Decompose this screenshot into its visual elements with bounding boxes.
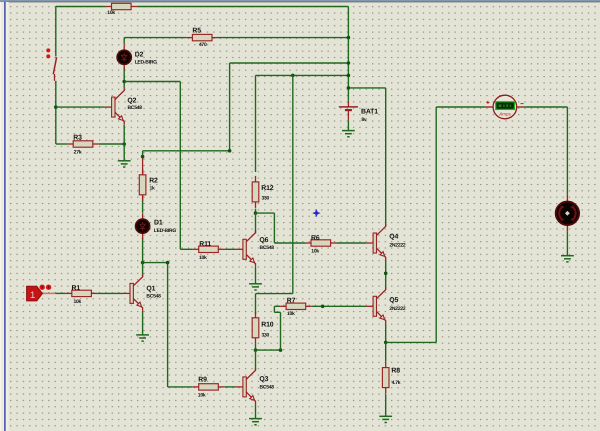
transistor Q6 BC548 bbox=[236, 230, 274, 266]
wire D2 bottom to Q2 collector bbox=[123, 67, 125, 88]
svg-text:BC548: BC548 bbox=[146, 293, 161, 299]
junction battery rail / y75 rail bbox=[347, 74, 351, 78]
resistor R7 10k bbox=[280, 297, 312, 317]
wire R10 top stub bbox=[255, 294, 257, 314]
svg-text:Q4: Q4 bbox=[389, 234, 398, 241]
wire R9 left bbox=[168, 386, 193, 388]
resistor R12 330 bbox=[252, 176, 274, 208]
wire R2 feed horizontal bbox=[143, 150, 230, 152]
svg-text:R7: R7 bbox=[287, 297, 296, 304]
wire R11 left bbox=[180, 248, 192, 250]
wire D1 node horizontal bbox=[143, 262, 168, 264]
wire battery node to Q4 collector bbox=[348, 87, 385, 89]
wire ammeter column vertical bbox=[435, 107, 437, 342]
wire battery negative to ground bbox=[347, 120, 349, 130]
svg-text:R5: R5 bbox=[192, 28, 201, 35]
svg-text:10k: 10k bbox=[199, 255, 207, 261]
wire Q2 emitter to ground bbox=[123, 125, 125, 161]
sheet inner margin strip bbox=[6, 2, 9, 431]
wire Q1 emitter to ground bbox=[142, 311, 144, 335]
svg-text:R12: R12 bbox=[261, 185, 274, 192]
svg-text:330: 330 bbox=[262, 196, 270, 202]
svg-text:R2: R2 bbox=[149, 177, 158, 184]
wire R6 left bbox=[274, 242, 305, 244]
svg-text:470: 470 bbox=[199, 42, 207, 48]
junction Q4 emitter / output branch bbox=[384, 272, 388, 276]
transistor Q1 BC548 bbox=[123, 274, 161, 311]
svg-text:27k: 27k bbox=[74, 149, 82, 155]
wire node to R6 jog horizontal bbox=[256, 212, 275, 214]
svg-text:BC548: BC548 bbox=[260, 245, 275, 251]
svg-text:Amps: Amps bbox=[498, 111, 511, 116]
svg-text:R1: R1 bbox=[72, 285, 81, 292]
svg-text:Q5: Q5 bbox=[389, 297, 398, 304]
ammeter AM1 (Amps) bbox=[486, 95, 524, 119]
wire R7 jog horizontal bbox=[274, 311, 280, 313]
svg-text:10k: 10k bbox=[74, 299, 82, 305]
svg-text:10k: 10k bbox=[107, 10, 115, 16]
wire top rail right segment bbox=[137, 6, 348, 8]
input terminal pin (pink) bbox=[42, 292, 55, 294]
wire output node to ammeter column bbox=[386, 341, 437, 343]
transistor Q3 BC548 bbox=[236, 368, 274, 405]
svg-text:LED-BIRG: LED-BIRG bbox=[135, 59, 158, 65]
origin marker (blue) bbox=[312, 209, 320, 217]
resistor R11 10k bbox=[193, 241, 225, 261]
wire Q2 base bbox=[56, 106, 105, 108]
wire R3 right to Q2 emitter node bbox=[99, 143, 124, 145]
wire R2 bottom pin (red) bbox=[142, 194, 144, 199]
wire R12 bottom to node bbox=[255, 209, 257, 214]
wire mid rail y63 bbox=[230, 62, 349, 64]
window left margin bbox=[0, 2, 1, 431]
wire ammeter right bbox=[524, 106, 567, 108]
junction Q5 emitter / R8 / ammeter branch bbox=[384, 341, 388, 345]
junction R12 / Q6 collector / R6 branch bbox=[254, 211, 258, 215]
wire R7 right to Q5 base bbox=[312, 305, 366, 307]
wire Q1 collector vertical bbox=[142, 238, 144, 277]
junction y75 / R10 branch bbox=[291, 74, 295, 78]
junction on Q5 base wire bbox=[321, 305, 325, 309]
svg-text:4.7k: 4.7k bbox=[392, 380, 401, 386]
wire R5 rail left bbox=[124, 37, 186, 39]
resistor R9 10k bbox=[193, 376, 225, 398]
svg-text:10k: 10k bbox=[311, 249, 319, 255]
svg-text:2N2222: 2N2222 bbox=[389, 243, 405, 249]
svg-text:R10: R10 bbox=[261, 321, 274, 328]
resistor R4 10k (top rail) bbox=[106, 3, 138, 16]
svg-text:R11: R11 bbox=[199, 241, 211, 248]
junction battery rail / y63 rail bbox=[347, 61, 351, 65]
wire R11 right to Q6 base bbox=[224, 248, 236, 250]
wire R7 left bbox=[274, 305, 280, 307]
junction R10 / Q3 collector / R7 bbox=[254, 348, 258, 352]
switch SW1 actuator dots bbox=[46, 48, 50, 58]
resistor R5 470 bbox=[186, 28, 218, 48]
ground under Q3 bbox=[249, 419, 262, 425]
wire left rail upper (to switch) bbox=[55, 7, 57, 57]
wire Q3 collector vertical bbox=[255, 350, 257, 370]
resistor R2 1k bbox=[139, 169, 158, 201]
junction D2 / Q2 collector / branch bbox=[122, 80, 126, 84]
svg-text:1: 1 bbox=[30, 290, 35, 301]
input logic-state dots bbox=[40, 285, 52, 290]
window top border bbox=[0, 0, 600, 2]
LED D2 bbox=[117, 44, 157, 70]
junction battery rail / R5 rail bbox=[347, 36, 351, 40]
resistor R8 4.7k bbox=[382, 362, 400, 394]
ground under Q1 bbox=[136, 335, 149, 341]
wire R8 bottom to ground bbox=[385, 394, 387, 416]
svg-text:R6: R6 bbox=[311, 235, 320, 242]
svg-text:Q1: Q1 bbox=[146, 285, 155, 292]
junction D1 / Q1 collector bbox=[141, 261, 145, 265]
wire R2 top stub bbox=[142, 151, 144, 157]
wire motor column lower bbox=[566, 231, 568, 255]
wire R7 node horizontal bbox=[256, 349, 281, 351]
window left blue border bbox=[4, 2, 6, 431]
svg-text:R3: R3 bbox=[73, 134, 82, 141]
junction R9 branch bbox=[166, 261, 170, 265]
svg-text:Q3: Q3 bbox=[259, 376, 268, 383]
ground under R8 bbox=[379, 416, 392, 422]
wire Q3 emitter to ground bbox=[255, 404, 257, 418]
LED D1 bbox=[136, 213, 177, 239]
wire R10 top jog horizontal bbox=[256, 293, 293, 295]
wire left rail lower (switch to R3) bbox=[55, 81, 57, 144]
junction battery positive node bbox=[347, 86, 351, 90]
svg-text:BC548: BC548 bbox=[128, 105, 143, 111]
wire node D2-Q2 to R11 column bbox=[124, 81, 180, 83]
transistor Q4 2N2222 bbox=[366, 224, 406, 261]
svg-text:R8: R8 bbox=[391, 368, 400, 375]
junction R2 top bbox=[141, 155, 145, 159]
svg-text:LED-BIRG: LED-BIRG bbox=[154, 228, 177, 234]
wire top rail left segment bbox=[56, 6, 106, 8]
wire Q5 emitter down bbox=[385, 324, 387, 343]
svg-text:10k: 10k bbox=[198, 393, 206, 399]
junction x229 corner bbox=[228, 149, 232, 153]
wire R3 left bbox=[56, 143, 67, 145]
wire mid rail y75 bbox=[256, 74, 349, 76]
wire R7 jog vertical bbox=[280, 312, 282, 350]
svg-text:Q2: Q2 bbox=[127, 98, 136, 105]
wire R10 top vertical bbox=[292, 75, 294, 293]
resistor R1 10k bbox=[66, 285, 98, 305]
svg-text:330: 330 bbox=[262, 332, 270, 338]
svg-text:BAT1: BAT1 bbox=[361, 108, 378, 115]
resistor R10 330 bbox=[252, 312, 274, 344]
wire terminal to R1 bbox=[56, 292, 66, 294]
wire R2 top pin (red) bbox=[142, 157, 144, 176]
wire R8 top bbox=[385, 342, 387, 361]
wire D2 top to R5 rail bbox=[123, 38, 125, 44]
svg-text:BC548: BC548 bbox=[260, 385, 275, 391]
junction Q2 emitter / R3 / ground bbox=[122, 142, 126, 146]
resistor R6 10k bbox=[305, 235, 337, 255]
transistor Q2 BC548 bbox=[105, 88, 143, 125]
wire Q6 collector vertical bbox=[255, 213, 257, 233]
resistor R3 27k bbox=[67, 134, 99, 155]
wire Q4 emitter to Q5 collector bbox=[385, 261, 387, 290]
svg-text:2N2222: 2N2222 bbox=[389, 306, 405, 312]
battery BAT1 8v bbox=[339, 101, 378, 123]
wire motor column upper bbox=[566, 107, 568, 194]
wire Q3 base bbox=[224, 386, 236, 388]
transistor Q5 2N2222 bbox=[366, 287, 406, 324]
ground under Q2 bbox=[118, 161, 131, 167]
wire R6 right to Q4 base bbox=[337, 242, 367, 244]
wire x229 vertical bbox=[229, 63, 231, 151]
wire R6 jog vertical bbox=[273, 213, 275, 243]
svg-text:Q6: Q6 bbox=[259, 237, 268, 244]
wire R1 right to Q1 base bbox=[97, 292, 123, 294]
wire R10 bottom stub bbox=[255, 344, 257, 351]
svg-text:8v: 8v bbox=[361, 117, 367, 123]
svg-text:10k: 10k bbox=[287, 311, 295, 317]
wire R7 jog up bbox=[273, 306, 275, 312]
wire battery rail vertical bbox=[347, 7, 349, 101]
junction R7 jog corner bbox=[279, 348, 283, 352]
wire Q6 emitter to ground bbox=[255, 267, 257, 284]
svg-text:D2: D2 bbox=[135, 52, 144, 59]
ground under Q6 bbox=[249, 284, 262, 290]
wire Q1 node to R9 vertical bbox=[167, 263, 169, 387]
wire R2 bottom to D1 top bbox=[142, 200, 144, 213]
svg-text:D1: D1 bbox=[154, 219, 163, 226]
ground under motor bbox=[561, 256, 574, 262]
svg-text:1k: 1k bbox=[150, 186, 156, 192]
junction left rail / Q2 base bbox=[54, 105, 58, 109]
wire R5 rail right bbox=[218, 37, 348, 39]
wire Q4 collector vertical bbox=[385, 88, 387, 227]
motor M1 bbox=[556, 194, 579, 231]
svg-text:R9: R9 bbox=[198, 376, 207, 383]
wire R12 top vertical bbox=[255, 75, 257, 172]
input terminal 1 bbox=[27, 286, 43, 301]
wire R11 column vertical bbox=[179, 82, 181, 250]
ground under battery bbox=[342, 131, 355, 137]
switch SW1 lever bbox=[53, 57, 56, 81]
wire ammeter left bbox=[436, 106, 486, 108]
